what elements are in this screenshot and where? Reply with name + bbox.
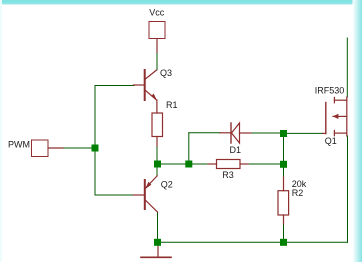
junction node J1: [154, 161, 161, 168]
wire Q1 source down to rail corner: [347, 136, 349, 242]
resistor R2: [278, 191, 289, 215]
wire bottom rail: [158, 241, 348, 243]
wire PWM port to rail: [63, 147, 95, 149]
svg-text:IRF530: IRF530: [315, 86, 345, 96]
pin R3 right: [240, 163, 248, 165]
svg-text:Q3: Q3: [160, 68, 172, 78]
wire D1 right lead to node A: [251, 132, 284, 134]
svg-text:R1: R1: [166, 100, 178, 110]
wire Vcc port to Q3 collector: [156, 53, 158, 71]
pin Vcc: [156, 39, 158, 53]
mosfet Q1: [323, 97, 347, 136]
junction node A: [280, 130, 287, 137]
pin R3 left: [208, 163, 217, 165]
junction node J3 (PWM): [92, 145, 99, 152]
junction node J4 (ground): [154, 239, 161, 246]
svg-text:R2: R2: [292, 188, 304, 198]
pin R1 bottom: [156, 137, 158, 147]
svg-text:Q2: Q2: [161, 180, 173, 190]
wire node A to Q1 gate: [284, 132, 323, 134]
svg-text:D1: D1: [230, 145, 242, 155]
wire node B to R3: [248, 163, 284, 165]
pin R2 bottom: [283, 215, 285, 224]
pin PWM: [48, 147, 63, 149]
wire node J1 to Q2 emitter: [156, 164, 158, 176]
wire R2 bottom to node C: [283, 224, 285, 242]
svg-text:R3: R3: [222, 170, 234, 180]
ground symbol: [141, 245, 171, 257]
wire PWM rail vertical: [95, 86, 134, 196]
junction node C: [280, 239, 287, 246]
wire node A to node B: [283, 133, 285, 164]
svg-text:Q1: Q1: [325, 136, 337, 146]
wire R1 bottom to node J1: [156, 146, 158, 164]
wire riser J2 up to D1 line: [188, 133, 190, 164]
wire D1 left lead: [189, 132, 220, 134]
transistor Q3: [134, 70, 157, 113]
port Vcc box: [149, 22, 165, 39]
transistor Q2: [134, 176, 158, 212]
svg-text:PWM: PWM: [8, 140, 30, 150]
diode D1: [220, 123, 251, 143]
wire R3 to node J2: [189, 163, 208, 165]
resistor R3: [217, 160, 241, 169]
port PWM box: [32, 140, 49, 157]
svg-text:Vcc: Vcc: [149, 7, 165, 17]
wire node J1 to node J2: [157, 163, 189, 165]
wire Q2 collector down to ground rail: [157, 212, 159, 242]
wire node B to R2 top: [283, 164, 285, 177]
wire Q1 drain up: [346, 38, 348, 97]
resistor R1: [152, 113, 163, 137]
junction node B: [280, 161, 287, 168]
junction node J2: [185, 161, 192, 168]
pin R2 top: [283, 177, 285, 191]
